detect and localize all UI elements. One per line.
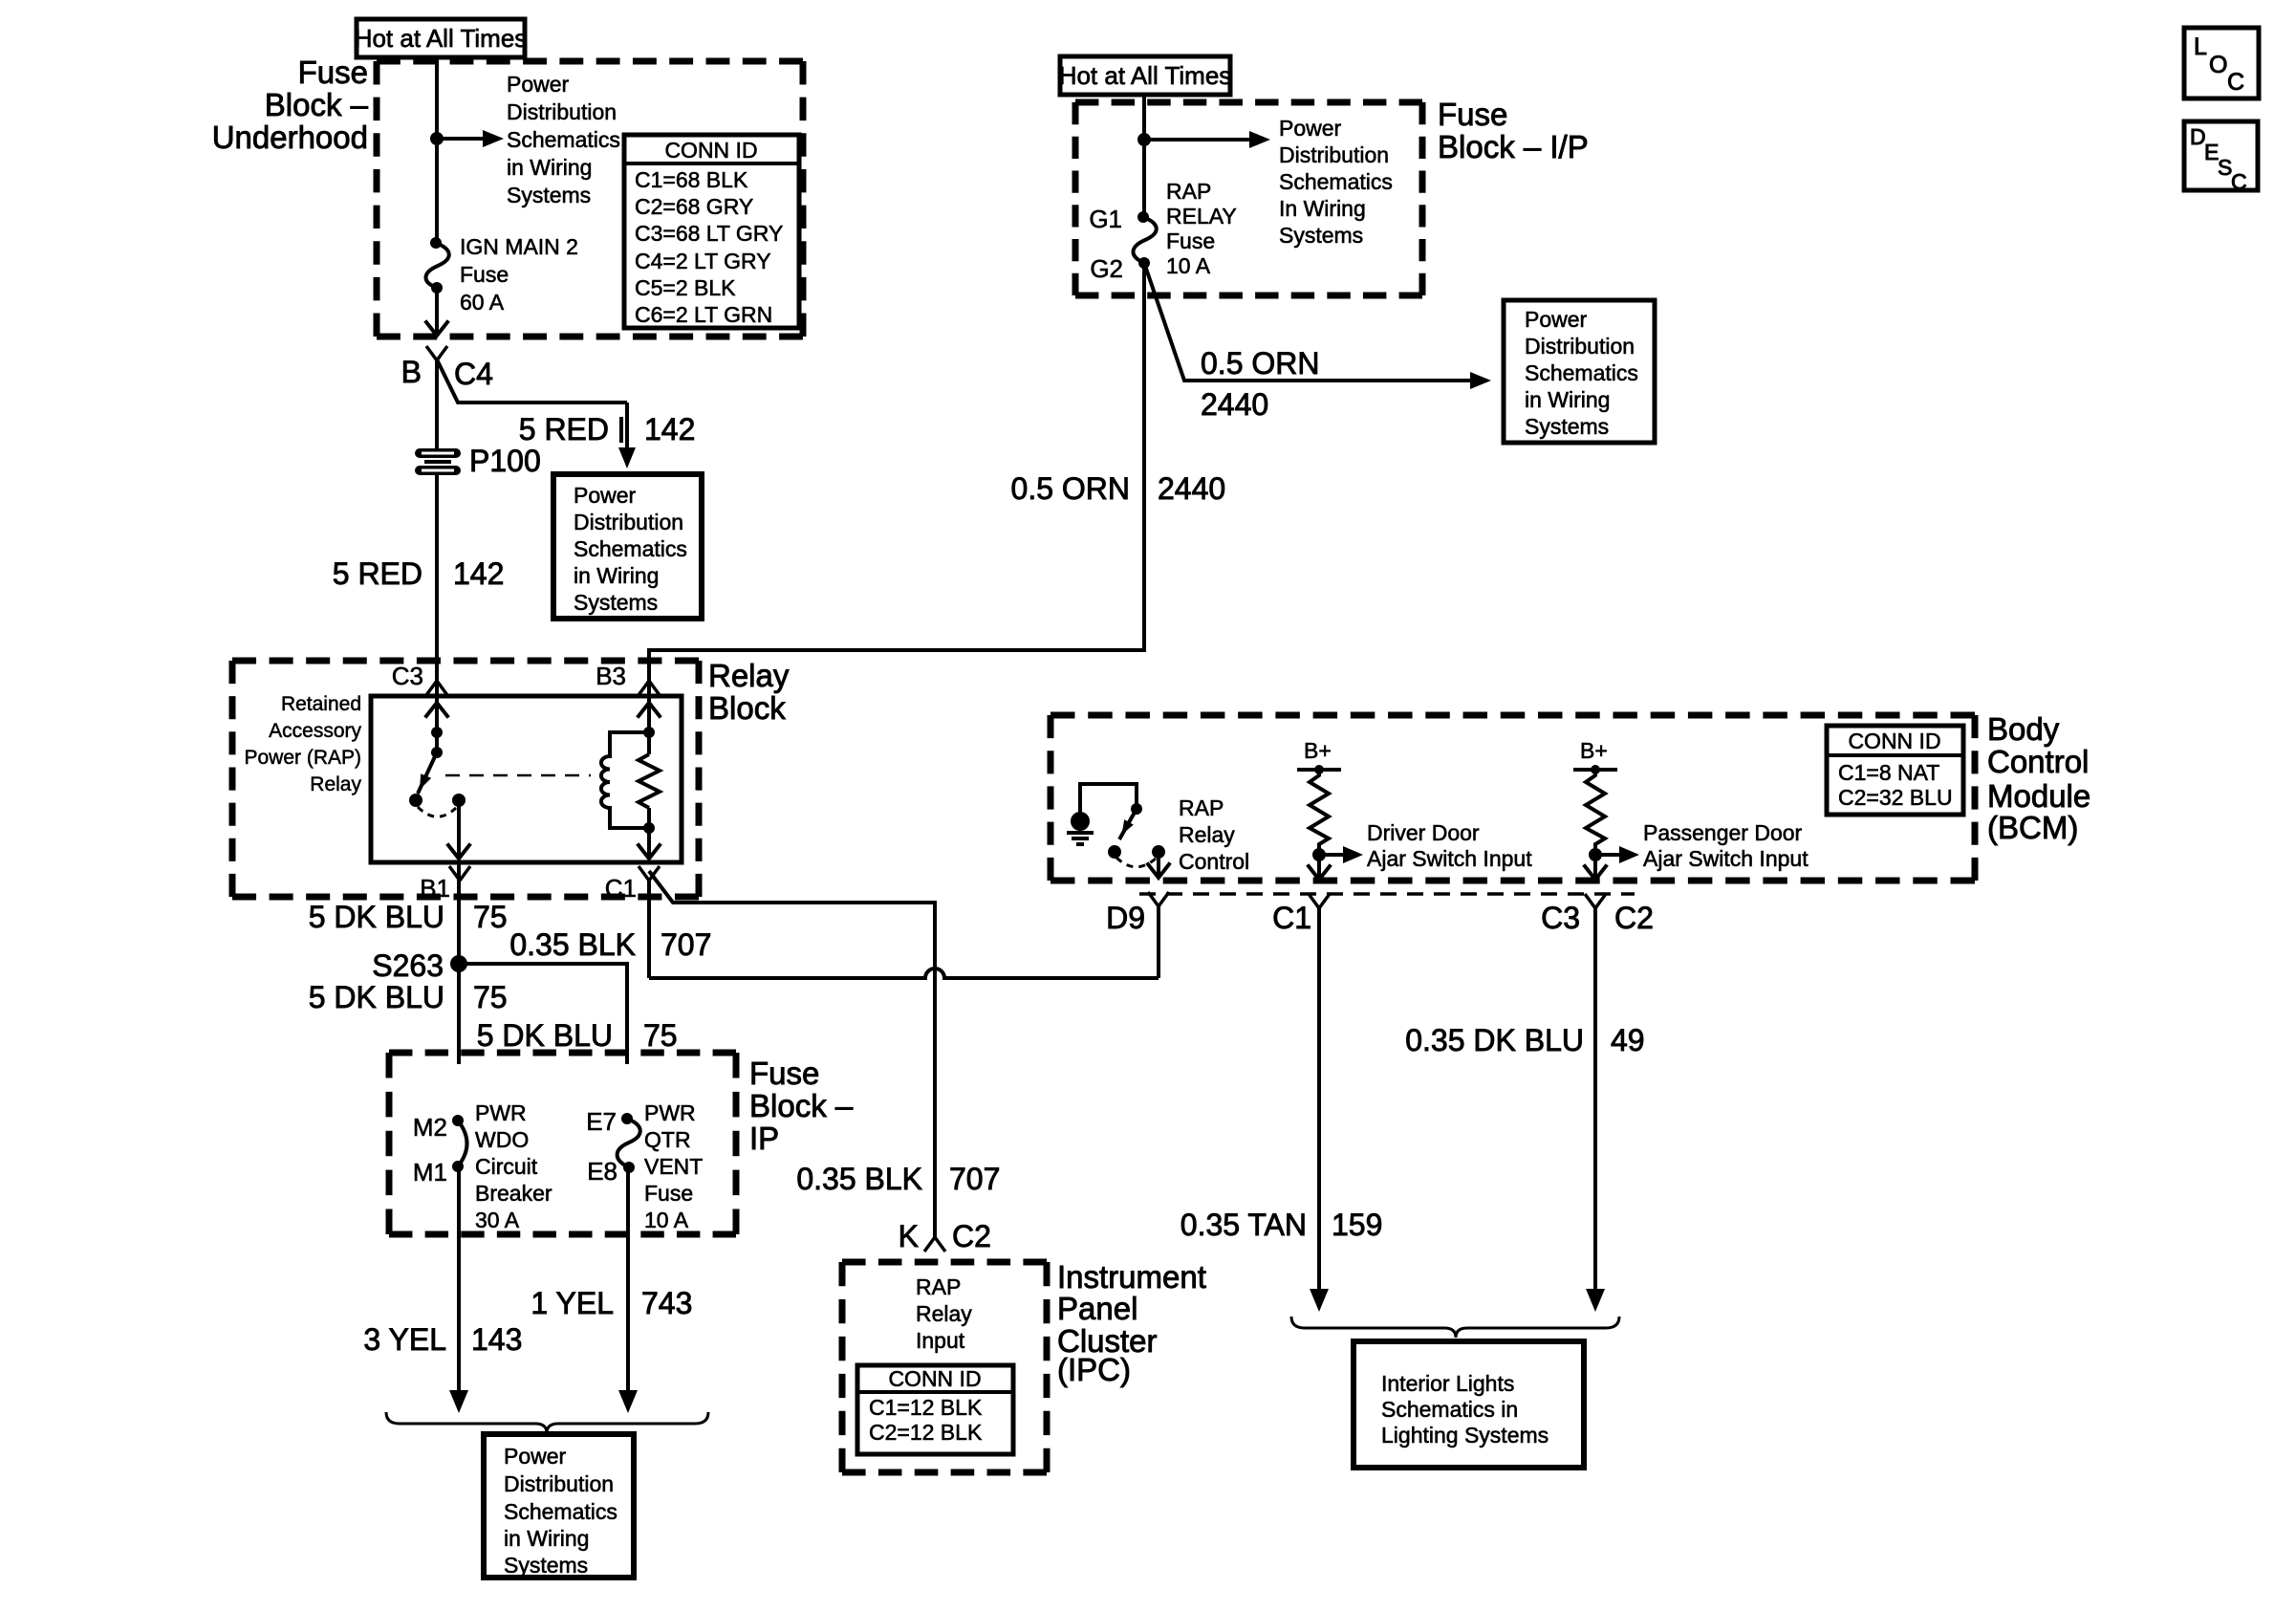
- wire branch 5 RED 142 to note box: [437, 359, 636, 468]
- svg-text:2440: 2440: [1201, 387, 1268, 422]
- svg-text:Systems: Systems: [1525, 414, 1609, 439]
- note Power Distribution Schematics in Wiring Systems: [507, 72, 620, 207]
- switch moving contact dots: [1108, 845, 1165, 859]
- label Body Control Module (BCM): [1987, 711, 2090, 845]
- svg-text:D9: D9: [1106, 901, 1145, 935]
- svg-text:Driver Door: Driver Door: [1367, 820, 1480, 845]
- connector C1 (relay): [605, 866, 660, 903]
- label 0.35 DK BLU 49: [1405, 1023, 1644, 1057]
- svg-text:QTR: QTR: [644, 1127, 691, 1152]
- svg-text:IGN MAIN 2: IGN MAIN 2: [460, 234, 578, 259]
- CONN ID table (underhood): [624, 135, 799, 328]
- svg-text:B3: B3: [596, 662, 626, 690]
- label 3 YEL 143: [363, 1322, 522, 1357]
- wire C4 down to P100: [435, 359, 439, 449]
- svg-text:Relay: Relay: [1179, 822, 1235, 847]
- svg-text:E8: E8: [587, 1157, 617, 1186]
- label 5 DK BLU 75 (below S263): [309, 980, 508, 1014]
- svg-text:Breaker: Breaker: [475, 1181, 552, 1206]
- svg-text:5 RED: 5 RED: [519, 412, 609, 446]
- svg-text:Input: Input: [916, 1328, 965, 1353]
- SECTION: right bottom interior lights: [1180, 908, 1645, 1468]
- RAP relay control switch contact: [1131, 803, 1142, 815]
- svg-text:Power: Power: [504, 1444, 567, 1469]
- note Power Distribution Schematics In Wiring Systems: [1279, 116, 1393, 248]
- fuse block IP box: [389, 1053, 736, 1234]
- svg-text:75: 75: [473, 980, 508, 1014]
- label RAP Relay Control: [1179, 795, 1249, 874]
- note box Power Distribution (bottom left): [484, 1434, 634, 1578]
- connector B1: [420, 866, 470, 903]
- fuse PWR QTR VENT 10A: [617, 1113, 640, 1173]
- SECTION: IPC + middle wires: [796, 1162, 1206, 1472]
- wire driver down with arrow: [1309, 855, 1330, 880]
- wire P100 down to relay C3: [435, 472, 439, 682]
- arrow driver door ajar switch input: [1319, 846, 1363, 863]
- svg-text:Distribution: Distribution: [1525, 334, 1635, 359]
- connector B / C4: [401, 346, 493, 391]
- connector B3: [596, 662, 660, 695]
- label PWR QTR VENT Fuse 10 A: [644, 1100, 703, 1232]
- BCM connector dashed boundary: [1139, 892, 1635, 896]
- svg-text:C4=2 LT GRY: C4=2 LT GRY: [635, 249, 771, 273]
- connector C3: [392, 662, 447, 695]
- svg-text:In Wiring: In Wiring: [1279, 196, 1366, 221]
- svg-text:C1: C1: [1272, 901, 1311, 935]
- svg-text:5 DK BLU: 5 DK BLU: [309, 900, 444, 934]
- svg-text:0.35 DK BLU: 0.35 DK BLU: [1405, 1023, 1584, 1057]
- splice S263: [372, 948, 467, 983]
- wire Hot down: [1142, 95, 1146, 217]
- SECTION: top right LOC DESC: [2184, 28, 2259, 194]
- svg-text:Control: Control: [1987, 744, 2089, 779]
- resistor driver door pull-up: [1310, 770, 1329, 855]
- svg-text:S263: S263: [372, 948, 444, 983]
- label Relay Block: [708, 658, 790, 726]
- junction dot: [430, 132, 444, 145]
- svg-text:C1: C1: [605, 874, 637, 903]
- svg-text:0.35 BLK: 0.35 BLK: [796, 1162, 922, 1196]
- svg-text:10 A: 10 A: [1166, 253, 1211, 278]
- svg-text:C2: C2: [1614, 901, 1654, 935]
- resistor passenger door pull-up: [1586, 770, 1605, 855]
- wire S263 down: [457, 964, 461, 1064]
- svg-text:RAP: RAP: [916, 1274, 961, 1299]
- svg-text:Block: Block: [708, 690, 786, 726]
- node B+ (driver): [1297, 738, 1341, 774]
- brace to interior lights note: [1291, 1317, 1619, 1338]
- svg-text:Instrument: Instrument: [1057, 1259, 1206, 1295]
- RAP relay control switch blade: [1119, 809, 1137, 839]
- svg-text:Schematics: Schematics: [504, 1499, 617, 1524]
- relay contact dashed arc: [418, 807, 456, 816]
- label RAP RELAY Fuse 10 A: [1166, 179, 1237, 278]
- label 5 RED 142 (branch): [519, 412, 696, 446]
- svg-text:Relay: Relay: [708, 658, 790, 693]
- label PWR WDO Circuit Breaker 30 A: [475, 1100, 552, 1232]
- svg-text:C2=68 GRY: C2=68 GRY: [635, 194, 753, 219]
- svg-text:1 YEL: 1 YEL: [531, 1286, 614, 1320]
- label 0.35 TAN 159: [1180, 1208, 1383, 1242]
- svg-text:M2: M2: [413, 1113, 447, 1142]
- svg-text:C: C: [2227, 69, 2244, 96]
- connector C3 / C2 (BCM): [1541, 894, 1654, 935]
- svg-text:0.35 TAN: 0.35 TAN: [1180, 1208, 1307, 1242]
- RAP relay box: [371, 696, 682, 862]
- relay switch blade: [418, 752, 437, 794]
- junction dot passenger: [1589, 848, 1602, 861]
- wire horizontal C1 to D9 with hop over 707: [649, 969, 1159, 978]
- svg-text:G2: G2: [1090, 254, 1123, 283]
- svg-text:C3=68 LT GRY: C3=68 LT GRY: [635, 221, 783, 246]
- junction dot driver: [1312, 848, 1326, 861]
- fuse IGN MAIN 2 60A: [425, 237, 448, 294]
- label RAP Relay Input: [916, 1274, 972, 1353]
- svg-text:Hot at All Times: Hot at All Times: [1059, 61, 1232, 90]
- svg-text:3 YEL: 3 YEL: [363, 1322, 446, 1357]
- wire G2 down to corner and left to B3: [649, 263, 1144, 682]
- svg-text:Power (RAP): Power (RAP): [244, 747, 361, 769]
- svg-text:Hot at All Times: Hot at All Times: [355, 24, 528, 53]
- CONN ID table (BCM): [1827, 726, 1963, 815]
- svg-text:in Wiring: in Wiring: [574, 563, 659, 588]
- LOC tab: [2184, 28, 2259, 98]
- svg-text:C1=8 NAT: C1=8 NAT: [1838, 760, 1939, 785]
- svg-text:PWR: PWR: [475, 1100, 527, 1125]
- label IGN MAIN 2 Fuse 60 A: [460, 234, 578, 315]
- svg-text:C6=2 LT GRN: C6=2 LT GRN: [635, 302, 772, 327]
- svg-text:Relay: Relay: [916, 1301, 972, 1326]
- svg-text:Body: Body: [1987, 711, 2060, 747]
- svg-text:0.5 ORN: 0.5 ORN: [1011, 471, 1130, 506]
- svg-text:in Wiring: in Wiring: [507, 155, 592, 180]
- connector D9: [1106, 892, 1169, 935]
- label 0.35 BLK 707 (lower): [796, 1162, 1000, 1196]
- fuse block underhood box: [377, 61, 803, 337]
- svg-text:143: 143: [471, 1322, 522, 1357]
- node Hot at All Times (left): [355, 19, 528, 57]
- wire S263 branch to E7 column: [459, 964, 627, 1064]
- svg-text:C1=12 BLK: C1=12 BLK: [869, 1395, 983, 1420]
- label Passenger Door Ajar Switch Input: [1643, 820, 1809, 871]
- wire C1 down to BCM D9 horizontal: [647, 880, 651, 978]
- wire B1 down to S263: [457, 862, 461, 964]
- svg-text:C5=2 BLK: C5=2 BLK: [635, 275, 736, 300]
- label 5 DK BLU 75 (above S263): [309, 900, 508, 934]
- svg-text:B+: B+: [1580, 738, 1608, 763]
- svg-text:0.35 BLK: 0.35 BLK: [509, 927, 636, 962]
- svg-text:C: C: [2231, 169, 2247, 194]
- svg-text:Fuse: Fuse: [749, 1056, 819, 1091]
- label Fuse Block IP: [749, 1056, 854, 1156]
- svg-text:(IPC): (IPC): [1057, 1352, 1131, 1387]
- svg-text:30 A: 30 A: [475, 1208, 520, 1232]
- label 5 DK BLU 75 (E7 branch): [477, 1018, 678, 1053]
- label 5 RED 142 (main): [333, 556, 505, 591]
- svg-text:Systems: Systems: [1279, 223, 1363, 248]
- label Retained Accessory Power (RAP) Relay: [244, 693, 361, 795]
- svg-text:K: K: [899, 1219, 919, 1253]
- svg-text:60 A: 60 A: [460, 290, 505, 315]
- svg-text:Systems: Systems: [504, 1553, 588, 1578]
- IPC dashed box: [842, 1262, 1047, 1472]
- svg-text:Accessory: Accessory: [269, 720, 361, 742]
- svg-text:707: 707: [661, 927, 711, 962]
- svg-text:B+: B+: [1304, 738, 1332, 763]
- connector K / C2: [899, 1219, 991, 1253]
- label 0.5 ORN 2440 (branch): [1201, 346, 1319, 422]
- svg-text:Power: Power: [1279, 116, 1342, 141]
- label Instrument Panel Cluster (IPC): [1057, 1259, 1206, 1387]
- svg-text:Schematics: Schematics: [1525, 360, 1638, 385]
- svg-text:159: 159: [1332, 1208, 1382, 1242]
- SECTION: top middle fuse block I/P: [649, 56, 1655, 682]
- svg-text:C1=68 BLK: C1=68 BLK: [635, 167, 748, 192]
- wire D9 down with arrow: [1148, 852, 1169, 878]
- fuse block I/P box: [1075, 102, 1422, 295]
- svg-text:C3: C3: [1541, 901, 1580, 935]
- svg-text:5 DK BLU: 5 DK BLU: [309, 980, 444, 1014]
- svg-text:75: 75: [473, 900, 508, 934]
- label Fuse Block I/P: [1438, 97, 1589, 164]
- svg-text:Distribution: Distribution: [1279, 142, 1389, 167]
- svg-text:Fuse: Fuse: [298, 54, 368, 90]
- svg-text:Circuit: Circuit: [475, 1154, 538, 1179]
- svg-text:Systems: Systems: [507, 183, 591, 207]
- svg-text:C2=12 BLK: C2=12 BLK: [869, 1420, 983, 1445]
- wire from Hot at All Times down to fuse: [435, 57, 439, 243]
- node Hot at All Times (right): [1059, 56, 1232, 95]
- svg-text:Schematics: Schematics: [574, 536, 687, 561]
- CONN ID table (IPC): [857, 1365, 1013, 1454]
- brace to power distribution note: [386, 1412, 708, 1433]
- svg-text:75: 75: [643, 1018, 678, 1053]
- relay switch fixed contact: [431, 703, 443, 758]
- wire E8 down with arrow: [618, 1167, 638, 1413]
- svg-text:Power: Power: [507, 72, 570, 97]
- svg-text:707: 707: [949, 1162, 1000, 1196]
- wire switch output down: [448, 800, 469, 859]
- svg-text:142: 142: [644, 412, 695, 446]
- svg-text:Block –: Block –: [749, 1088, 854, 1123]
- wire ground up and over to switch: [1080, 784, 1137, 813]
- svg-text:Distribution: Distribution: [507, 99, 617, 124]
- wire B3 into relay: [647, 682, 651, 720]
- arrow passenger door ajar switch input: [1595, 846, 1639, 863]
- svg-text:in Wiring: in Wiring: [1525, 387, 1610, 412]
- svg-text:Ajar Switch Input: Ajar Switch Input: [1643, 846, 1809, 871]
- svg-text:C4: C4: [454, 357, 493, 391]
- svg-text:O: O: [2209, 52, 2227, 78]
- wire passenger down with arrow: [1585, 855, 1606, 880]
- wire 707 branch from C1 to IPC: [649, 871, 935, 1238]
- label Fuse Block Underhood: [212, 54, 369, 155]
- svg-text:Ajar Switch Input: Ajar Switch Input: [1367, 846, 1532, 871]
- svg-text:RAP: RAP: [1179, 795, 1224, 820]
- svg-text:0.5 ORN: 0.5 ORN: [1201, 346, 1319, 381]
- svg-text:Retained: Retained: [281, 693, 361, 715]
- svg-text:G1: G1: [1089, 205, 1122, 233]
- fuse RAP RELAY 10A: [1133, 211, 1156, 269]
- svg-text:Schematics: Schematics: [1279, 169, 1393, 194]
- SECTION: BCM: [1051, 711, 2090, 978]
- svg-text:CONN ID: CONN ID: [664, 138, 757, 163]
- svg-text:Distribution: Distribution: [504, 1471, 614, 1496]
- node B+ (passenger): [1573, 738, 1617, 774]
- SECTION: top-left fuse block underhood: [212, 19, 803, 682]
- relay moving contact dots: [409, 794, 466, 807]
- svg-text:142: 142: [453, 556, 504, 591]
- relay actuation dashed link: [445, 774, 591, 777]
- svg-text:C2=32 BLU: C2=32 BLU: [1838, 785, 1953, 810]
- connector C1 (BCM): [1272, 894, 1330, 935]
- svg-text:(BCM): (BCM): [1987, 810, 2078, 845]
- svg-text:in Wiring: in Wiring: [504, 1526, 589, 1551]
- svg-text:5 DK BLU: 5 DK BLU: [477, 1018, 613, 1053]
- svg-text:P100: P100: [469, 444, 541, 478]
- note box Interior Lights Schematics: [1354, 1341, 1584, 1468]
- svg-text:Panel: Panel: [1057, 1291, 1137, 1326]
- svg-text:C3: C3: [392, 662, 423, 690]
- note box Power Distribution (top right): [1504, 300, 1655, 443]
- svg-text:Block – I/P: Block – I/P: [1438, 129, 1589, 164]
- svg-text:RELAY: RELAY: [1166, 204, 1237, 229]
- relay block dashed box: [232, 661, 699, 897]
- svg-text:PWR: PWR: [644, 1100, 696, 1125]
- svg-text:Underhood: Underhood: [212, 120, 368, 155]
- svg-text:Interior Lights: Interior Lights: [1381, 1371, 1514, 1396]
- svg-text:Fuse: Fuse: [460, 262, 509, 287]
- svg-text:Power: Power: [1525, 307, 1588, 332]
- ground (BCM internal): [1067, 812, 1094, 844]
- circuit breaker PWR WDO 30A: [452, 1115, 467, 1172]
- wire D9 to corner: [1157, 905, 1160, 978]
- svg-text:Power: Power: [574, 483, 637, 508]
- wire branch arrow to Power Distribution note: [437, 130, 504, 147]
- svg-text:Passenger Door: Passenger Door: [1643, 820, 1803, 845]
- svg-text:M1: M1: [413, 1158, 447, 1186]
- svg-text:C2: C2: [952, 1219, 991, 1253]
- junction dot: [1137, 133, 1151, 146]
- svg-text:Distribution: Distribution: [574, 510, 683, 534]
- wire C1 BCM down with arrow: [1310, 908, 1329, 1312]
- svg-text:VENT: VENT: [644, 1154, 703, 1179]
- svg-text:Fuse: Fuse: [644, 1181, 693, 1206]
- svg-text:Fuse: Fuse: [1438, 97, 1507, 132]
- SECTION: left middle relay block: [232, 658, 1159, 1238]
- svg-text:Block –: Block –: [265, 87, 369, 122]
- inline connector P100: [415, 444, 541, 478]
- note box Power Distribution (mid-left): [553, 474, 702, 619]
- svg-text:Schematics in: Schematics in: [1381, 1397, 1518, 1422]
- svg-text:L: L: [2194, 33, 2207, 60]
- SECTION: left bottom fuse block IP: [363, 1053, 853, 1578]
- svg-text:WDO: WDO: [475, 1127, 529, 1152]
- label 1 YEL 743: [531, 1286, 692, 1320]
- svg-text:B: B: [401, 355, 422, 389]
- svg-text:5 RED: 5 RED: [333, 556, 422, 591]
- svg-text:Relay: Relay: [310, 773, 361, 795]
- relay coil: [601, 727, 655, 834]
- switch dashed arc: [1116, 858, 1156, 867]
- svg-text:IP: IP: [749, 1121, 779, 1156]
- svg-text:Schematics: Schematics: [507, 127, 620, 152]
- svg-text:Control: Control: [1179, 849, 1249, 874]
- svg-text:CONN ID: CONN ID: [888, 1366, 981, 1391]
- svg-text:743: 743: [641, 1286, 692, 1320]
- relay switch common arrow up: [426, 703, 447, 716]
- svg-text:B1: B1: [420, 874, 450, 903]
- svg-text:RAP: RAP: [1166, 179, 1211, 204]
- svg-text:CONN ID: CONN ID: [1848, 729, 1940, 753]
- wire C2 BCM down with arrow: [1586, 908, 1605, 1312]
- svg-text:10 A: 10 A: [644, 1208, 689, 1232]
- wire branch 0.5 ORN 2440 to note with arrow: [1144, 263, 1491, 389]
- DESC tab: [2184, 121, 2258, 194]
- svg-text:49: 49: [1611, 1023, 1645, 1057]
- svg-text:Systems: Systems: [574, 590, 658, 615]
- label 0.35 BLK 707 (upper): [509, 927, 711, 962]
- svg-text:2440: 2440: [1158, 471, 1225, 506]
- svg-text:E7: E7: [586, 1107, 617, 1136]
- label 0.5 ORN 2440 (main): [1011, 471, 1226, 506]
- svg-text:Fuse: Fuse: [1166, 229, 1215, 253]
- svg-text:Module: Module: [1987, 778, 2090, 814]
- svg-text:Lighting Systems: Lighting Systems: [1381, 1423, 1549, 1448]
- BCM dashed box: [1051, 715, 1975, 881]
- label Driver Door Ajar Switch Input: [1367, 820, 1532, 871]
- wire branch arrow to Power Distribution note: [1144, 131, 1270, 148]
- relay coil suppression resistor: [639, 703, 660, 859]
- wire M1 down with arrow: [449, 1166, 468, 1413]
- wire C3 into relay: [435, 682, 439, 720]
- wire fuse down to box edge with arrow: [426, 288, 447, 336]
